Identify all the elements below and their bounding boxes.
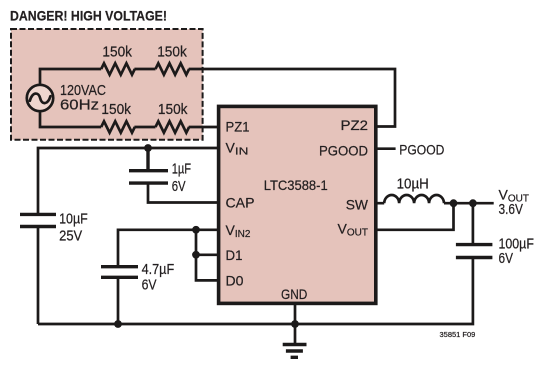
svg-text:LTC3588-1: LTC3588-1: [264, 177, 328, 193]
wire VOUT pin: [377, 203, 454, 230]
node VOUT junction: [469, 199, 477, 207]
svg-text:10µH: 10µH: [397, 177, 429, 193]
resistor R4 150k: [156, 121, 190, 132]
op IC U1 LTC3588-1: [219, 106, 376, 303]
node D1 junction: [192, 251, 200, 259]
wire VIN2 net: [118, 230, 219, 324]
capacitor C2 10uF: [20, 214, 56, 226]
wire AC bottom to PZ1: [40, 111, 219, 127]
resistor R2 150k: [156, 63, 190, 74]
svg-text:GND: GND: [281, 286, 307, 302]
ground: [283, 345, 307, 358]
svg-text:PGOOD: PGOOD: [319, 143, 368, 159]
wire D1 stub: [196, 253, 219, 256]
capacitor C1 1uF: [129, 148, 219, 203]
wire PGOOD stub: [377, 147, 396, 150]
wire VIN rail: [38, 148, 219, 324]
capacitor C4 100uF: [456, 245, 493, 258]
svg-text:3.6V: 3.6V: [499, 202, 524, 218]
node SW-L junction: [450, 199, 458, 207]
svg-text:35851 F09: 35851 F09: [440, 332, 476, 339]
svg-text:6V: 6V: [499, 251, 514, 267]
svg-text:150k: 150k: [102, 45, 132, 61]
svg-text:150k: 150k: [101, 102, 131, 118]
svg-text:PGOOD: PGOOD: [399, 141, 444, 157]
svg-text:1µF: 1µF: [172, 162, 191, 178]
wire GND pin: [294, 303, 297, 345]
node VIN2 junction: [192, 226, 200, 234]
capacitor C3 4.7uF: [101, 267, 138, 278]
resistor R3 150k: [101, 121, 135, 132]
wire SW: [377, 202, 494, 205]
wire AC top to PZ2: [40, 69, 395, 127]
svg-text:6V: 6V: [142, 278, 157, 294]
svg-text:D0: D0: [226, 273, 244, 289]
wire ground rail: [38, 258, 473, 325]
high voltage dashed box: [11, 29, 203, 140]
svg-text:100µF: 100µF: [499, 236, 534, 252]
node VIN junction: [144, 144, 152, 152]
svg-text:25V: 25V: [59, 228, 82, 244]
svg-text:PZ1: PZ1: [226, 119, 250, 135]
inductor L1 10uH: [384, 195, 444, 203]
svg-text:4.7µF: 4.7µF: [142, 262, 175, 278]
svg-text:150k: 150k: [158, 102, 188, 118]
svg-text:CAP: CAP: [226, 195, 255, 211]
svg-text:10µF: 10µF: [59, 212, 88, 228]
node GND junction: [291, 320, 299, 328]
svg-text:DANGER! HIGH VOLTAGE!: DANGER! HIGH VOLTAGE!: [10, 8, 167, 23]
svg-text:SW: SW: [346, 197, 369, 213]
svg-text:D1: D1: [226, 247, 243, 263]
svg-text:PZ2: PZ2: [341, 117, 369, 133]
wire C4 top: [472, 203, 475, 244]
svg-text:60Hz: 60Hz: [60, 97, 99, 114]
wire D0 stub: [196, 230, 219, 281]
resistor R1 150k: [101, 63, 135, 74]
svg-text:150k: 150k: [157, 45, 187, 61]
AC source V1: [27, 85, 53, 111]
svg-text:6V: 6V: [172, 179, 186, 195]
node C3 ground junction: [114, 320, 122, 328]
